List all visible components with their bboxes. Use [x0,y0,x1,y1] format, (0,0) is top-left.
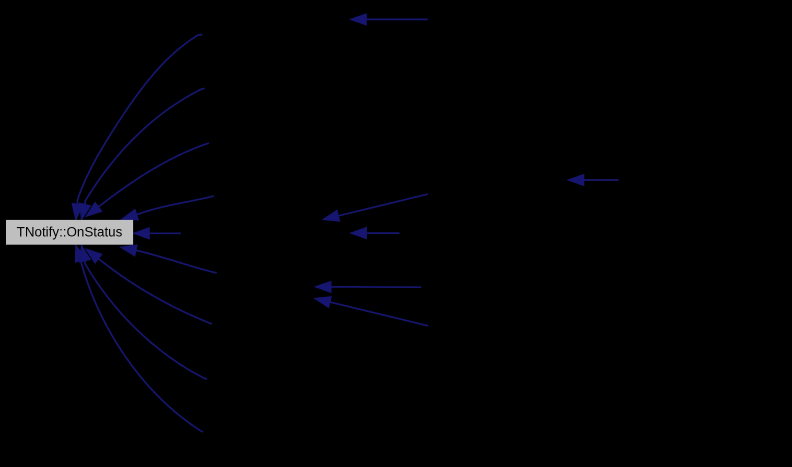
edge from node6 to TNotify::OnStatus [134,228,182,239]
edge from node3 to TNotify::OnStatus [80,89,205,220]
edge from node5 to TNotify::OnStatus [122,196,214,220]
edge from node10 to TNotify::OnStatus [75,245,203,432]
node TNotify::OnStatus [6,220,133,245]
edge from node16 to node7 [315,297,429,326]
edge from node15 to node7 [315,281,421,292]
edge from node9 to TNotify::OnStatus [80,245,207,379]
svg-text:TNotify::OnStatus: TNotify::OnStatus [17,224,123,239]
edge from node13 to node5 [323,194,428,221]
edge from node2 to TNotify::OnStatus [72,35,202,220]
edge from node14 to node5 [351,228,400,239]
edge from node4 to TNotify::OnStatus [86,143,209,217]
edge from node11 to node2 [351,14,428,25]
edge from node12 to node13 [568,174,619,185]
edge from node8 to TNotify::OnStatus [86,249,212,324]
edge from node7 to TNotify::OnStatus [121,245,217,273]
